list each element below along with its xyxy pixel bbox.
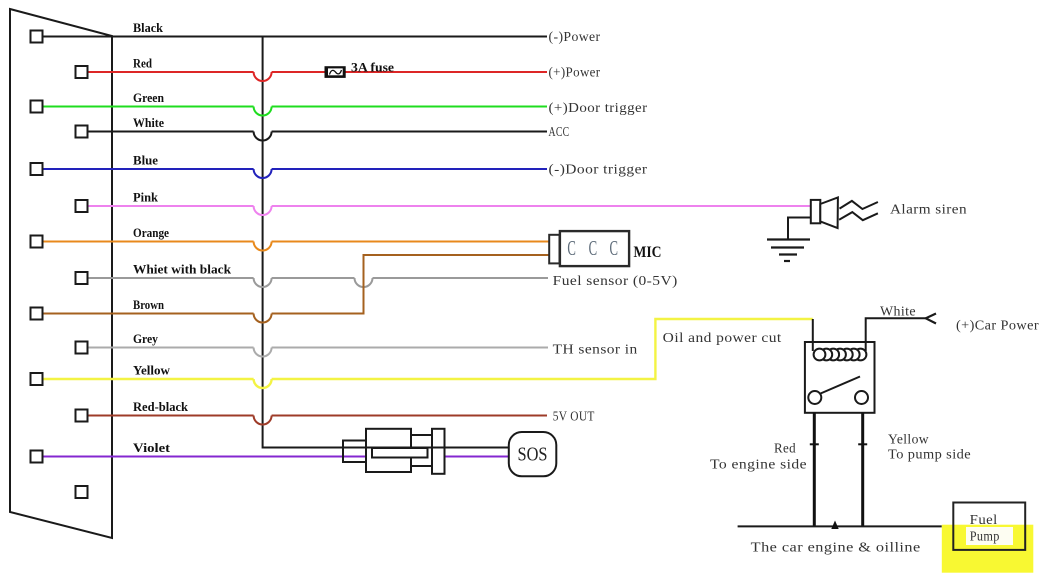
SOS inline connector rect A xyxy=(343,441,366,463)
svg-text:Red: Red xyxy=(774,442,796,457)
yellow highlight xyxy=(942,525,1034,573)
MIC U1 xyxy=(549,231,629,266)
alarm siren LS1 xyxy=(767,197,878,261)
pin 5 (Blue) xyxy=(31,163,43,175)
engine line xyxy=(738,525,942,527)
svg-text:Alarm siren: Alarm siren xyxy=(890,203,967,218)
wire White-with-black to fuel sensor xyxy=(88,278,549,287)
pin 12 (Red-black) xyxy=(76,410,88,422)
svg-text:Green: Green xyxy=(133,90,165,105)
svg-text:SOS: SOS xyxy=(518,444,548,466)
pin 10 (Grey) xyxy=(76,342,88,354)
wire Grey TH sensor xyxy=(88,348,549,357)
wire White ACC xyxy=(88,132,548,141)
svg-text:(-)Power: (-)Power xyxy=(549,30,601,45)
svg-text:To engine side: To engine side xyxy=(710,458,807,473)
wire Brown to MIC xyxy=(43,255,550,323)
siren horn xyxy=(820,197,838,228)
svg-text:Violet: Violet xyxy=(133,440,171,455)
relay switch arm xyxy=(821,377,861,394)
fuel pump box xyxy=(953,503,1025,550)
relay output wire to pump side xyxy=(861,413,864,527)
arrow to (+)Car Power xyxy=(926,314,936,324)
pin 14 (unused) xyxy=(76,486,88,498)
splice tick right xyxy=(858,443,867,445)
svg-text:(+)Door trigger: (+)Door trigger xyxy=(549,101,648,116)
svg-text:Yellow: Yellow xyxy=(133,363,171,378)
pin 3 (Green) xyxy=(31,101,43,113)
pin 4 (White) xyxy=(76,126,88,138)
svg-text:Blue: Blue xyxy=(133,153,158,168)
wire Violet to SOS xyxy=(43,456,510,458)
svg-text:Orange: Orange xyxy=(133,225,169,240)
svg-text:White: White xyxy=(880,305,916,320)
pin 9 (Brown) xyxy=(31,308,43,320)
svg-text:Oil and power cut: Oil and power cut xyxy=(663,331,782,346)
wire Red (+)Power xyxy=(88,72,548,81)
svg-text:Pump: Pump xyxy=(970,530,1000,545)
svg-text:5V OUT: 5V OUT xyxy=(553,410,595,425)
svg-text:C: C xyxy=(589,236,598,260)
wire Yellow oil and power cut xyxy=(43,319,813,388)
svg-text:White: White xyxy=(133,115,164,130)
white patch behind Pump xyxy=(966,527,1013,545)
svg-text:Pink: Pink xyxy=(133,190,159,205)
relay left stub from yellow wire xyxy=(812,319,814,351)
svg-text:Grey: Grey xyxy=(133,331,158,346)
svg-text:Brown: Brown xyxy=(133,297,165,312)
svg-text:Black: Black xyxy=(133,20,164,35)
siren driver xyxy=(811,200,821,223)
SOS button xyxy=(509,432,557,476)
splice tick left xyxy=(810,443,819,445)
svg-text:(-)Door trigger: (-)Door trigger xyxy=(549,163,648,178)
wire Red-black 5V OUT xyxy=(88,416,548,425)
wire Black (-)Power xyxy=(43,36,548,38)
SOS inline connector rect B xyxy=(366,429,411,472)
wire Orange to MIC xyxy=(43,242,550,251)
sound waves xyxy=(840,201,878,209)
pin 8 (White with black) xyxy=(76,272,88,284)
svg-text:Fuel: Fuel xyxy=(970,513,998,528)
ground symbol xyxy=(767,240,810,262)
main vertical bus wire xyxy=(263,37,509,448)
svg-text:The car engine & oilline: The car engine & oilline xyxy=(751,541,921,556)
arrow on engine line xyxy=(831,521,838,530)
svg-text:MIC: MIC xyxy=(634,244,662,261)
pin 11 (Yellow) xyxy=(31,373,43,385)
relay output wire to engine side xyxy=(813,413,816,527)
relay K1 xyxy=(805,314,936,527)
svg-text:Whiet with black: Whiet with black xyxy=(133,262,232,277)
svg-text:Fuel sensor (0-5V): Fuel sensor (0-5V) xyxy=(553,274,678,289)
pin 7 (Orange) xyxy=(31,236,43,248)
svg-text:Yellow: Yellow xyxy=(888,433,929,448)
svg-text:ACC: ACC xyxy=(549,125,570,140)
SOS inline connector rect E xyxy=(432,429,445,474)
svg-text:C: C xyxy=(567,236,576,260)
svg-text:Red-black: Red-black xyxy=(133,399,189,414)
relay right stub / White wire xyxy=(866,318,926,351)
svg-text:3A fuse: 3A fuse xyxy=(351,60,394,75)
wire black over SOS connector xyxy=(343,447,509,449)
wire Green (+)Door trigger xyxy=(43,107,548,116)
relay coil xyxy=(814,349,867,361)
wire Blue (-)Door trigger xyxy=(43,169,548,178)
relay switch contacts xyxy=(808,391,821,404)
pin 2 (Red) xyxy=(76,66,88,78)
pin 6 (Pink) xyxy=(76,200,88,212)
wire Pink to alarm siren xyxy=(88,206,812,215)
SOS inline connector rect D xyxy=(411,435,433,466)
svg-text:C: C xyxy=(610,236,619,260)
SOS inline connector rect C xyxy=(372,448,428,458)
fuse F1 3A xyxy=(325,66,346,78)
svg-text:(+)Power: (+)Power xyxy=(549,66,601,81)
relay box xyxy=(805,342,875,413)
svg-text:TH sensor in: TH sensor in xyxy=(553,343,638,358)
svg-text:To pump side: To pump side xyxy=(888,448,971,463)
connector J1 outline xyxy=(10,9,112,538)
pin 13 (Violet) xyxy=(31,451,43,463)
svg-text:Red: Red xyxy=(133,56,153,71)
pin 1 (Black) xyxy=(31,31,43,43)
svg-text:(+)Car Power: (+)Car Power xyxy=(956,319,1039,334)
siren ground wire xyxy=(788,218,811,240)
